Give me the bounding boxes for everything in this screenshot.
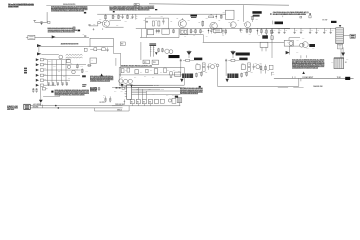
component value labels logic row	[103, 84, 175, 97]
wire right section vert	[271, 36, 273, 58]
svg-text:1N4: 1N4	[140, 70, 143, 73]
resistor R16	[190, 29, 192, 34]
component value labels dual regs	[196, 62, 270, 74]
filter choke box B	[162, 29, 169, 34]
transformer T2 core bar top	[149, 43, 156, 46]
resistor R10	[209, 16, 214, 18]
svg-text:PWR GND BUS: PWR GND BUS	[115, 104, 125, 106]
svg-text:C22: C22	[188, 20, 191, 22]
filter box	[260, 42, 268, 47]
resistor R12	[252, 16, 254, 23]
resistor R25	[40, 64, 43, 66]
tick marks left of IC	[123, 99, 125, 104]
svg-text:TB1: TB1	[135, 4, 138, 6]
sense corner box	[90, 58, 97, 63]
capacitor C5	[146, 20, 148, 23]
svg-text:TO K1: TO K1	[337, 77, 341, 79]
svg-text:C19: C19	[317, 30, 319, 32]
svg-text:A1: A1	[91, 58, 93, 61]
wire reg left vert	[118, 68, 120, 86]
svg-text:REFERENCE DESIGNATIONS ARE ABB: REFERENCE DESIGNATIONS ARE ABBREVIATED S…	[48, 27, 74, 30]
capacitor C26 bypass	[66, 82, 68, 85]
resistor R31	[81, 68, 83, 73]
wire ladder to J3	[343, 35, 350, 37]
transformer T1 primary blob	[252, 11, 261, 14]
capacitor C29 input	[225, 59, 227, 62]
capacitor C35	[32, 88, 34, 90]
note label box TB1	[134, 4, 139, 6]
capacitor C39	[105, 96, 107, 98]
test point box TP4	[152, 60, 158, 64]
snubber box	[225, 10, 234, 19]
bus bar blob	[236, 53, 250, 56]
svg-text:NOTE UNLESS OTHERWISE SPECIFIE: NOTE UNLESS OTHERWISE SPECIFIED ALL RESI…	[292, 59, 324, 62]
component value labels bias band	[184, 31, 267, 38]
transformer T2 secondary winding	[153, 46, 155, 57]
component value labels converter	[143, 12, 258, 24]
capacitor C33 stub	[270, 72, 272, 75]
wire Q1 emitter	[106, 26, 124, 28]
capacitor C19 output filter	[316, 28, 318, 32]
svg-text:R1K: R1K	[130, 18, 133, 20]
connector blob P2	[345, 77, 350, 80]
svg-text:4R7: 4R7	[206, 35, 209, 38]
resistor R33	[121, 69, 124, 73]
arrow flag reg gnd 1	[121, 84, 124, 87]
IC fan line 3	[132, 88, 161, 90]
svg-text:C16: C16	[295, 30, 297, 32]
capacitor C2 on input	[88, 24, 90, 27]
resistor R46	[260, 65, 262, 74]
resistor R26	[40, 69, 43, 71]
feedback box outline	[90, 38, 113, 46]
svg-text:4R7: 4R7	[184, 35, 187, 38]
label blob small	[82, 75, 86, 77]
wire bottom loop	[95, 110, 130, 112]
svg-text:R22: R22	[205, 72, 208, 74]
resistor R21	[249, 28, 251, 33]
resistor R22	[260, 28, 262, 34]
resistor R24	[40, 59, 43, 61]
resistor R1	[48, 21, 50, 23]
capacitor C24 bypass	[57, 82, 59, 85]
svg-text:K1A: K1A	[287, 40, 290, 43]
wire right edge drop	[179, 103, 181, 106]
svg-text:1N4: 1N4	[152, 76, 155, 79]
junction square after note block 3	[78, 30, 81, 32]
capacitor C25 bypass	[61, 82, 63, 85]
svg-text:C22: C22	[223, 12, 226, 14]
wire stub q ground a	[300, 55, 302, 58]
resistor R6	[127, 14, 129, 19]
label blob reg 2	[239, 58, 247, 61]
wire feedback path	[112, 47, 114, 54]
crystal Y1 hatch box	[177, 98, 182, 103]
svg-text:1N4: 1N4	[167, 68, 170, 71]
svg-text:TP2: TP2	[44, 63, 47, 65]
transformer T2 winding zigzag row 1	[66, 54, 83, 55]
optocoupler U2 led circle	[289, 41, 293, 45]
svg-text:W3: W3	[143, 101, 145, 103]
feedback box sub 2	[241, 65, 245, 70]
wire Q5 feed	[243, 5, 245, 22]
transistor Q13	[211, 65, 215, 69]
svg-text:TP2: TP2	[63, 76, 66, 78]
capacitor C15 output filter	[284, 28, 286, 32]
svg-text:R1K: R1K	[93, 23, 96, 25]
capacitor C16 output filter	[294, 28, 296, 32]
wire bottom return long	[218, 85, 299, 87]
terminal strip ladder	[336, 28, 344, 44]
IC fan line 4	[132, 90, 181, 92]
wire mid return rail	[203, 41, 285, 43]
wire left vert 1	[141, 29, 143, 38]
svg-text:W1: W1	[131, 101, 133, 103]
svg-text:C22: C22	[170, 20, 173, 22]
capacitor C3	[122, 14, 124, 16]
test point box TP2	[120, 42, 125, 46]
capacitor C9 on B+ line	[84, 35, 86, 38]
svg-text:TP2: TP2	[76, 69, 79, 71]
junction tick crossing buses	[41, 105, 43, 109]
svg-text:REGULATOR NOTES: REGULATOR NOTES	[63, 3, 75, 6]
resistor R29	[40, 84, 43, 86]
svg-text:RTN: RTN	[232, 50, 234, 52]
transistor Q4	[230, 22, 236, 28]
wire AC line	[274, 77, 354, 79]
note block 7 text	[180, 88, 203, 89]
svg-text:1N4: 1N4	[150, 68, 153, 71]
capacitor C18 output filter	[309, 28, 311, 32]
notes header rule	[46, 4, 154, 6]
connector J2 pin 4 flag	[36, 74, 39, 77]
wire sense line	[39, 46, 90, 48]
svg-text:R22: R22	[214, 63, 217, 65]
svg-text:R22: R22	[249, 63, 252, 65]
connector J1 box	[24, 104, 30, 109]
svg-text:4R7: 4R7	[222, 34, 225, 37]
svg-text:C18: C18	[311, 30, 313, 32]
svg-text:R16: R16	[192, 30, 194, 32]
resistor R11	[220, 15, 222, 19]
note block 4 text	[90, 76, 113, 77]
svg-text:MODEL CP687B: MODEL CP687B	[8, 6, 19, 8]
wire converter left edge drop	[140, 42, 142, 60]
svg-text:TP2: TP2	[44, 58, 47, 60]
svg-text:U7A: U7A	[137, 88, 140, 91]
svg-text:R22: R22	[203, 63, 206, 65]
transistor Q5	[245, 22, 251, 28]
resistor R3	[98, 22, 100, 24]
diode CR4	[222, 29, 224, 35]
resistor R20	[246, 28, 248, 33]
svg-text:R22: R22	[198, 71, 201, 73]
IC fan line 5	[132, 92, 147, 94]
wire grid vert 5	[65, 60, 67, 83]
svg-text:R1K: R1K	[108, 21, 111, 23]
rectifier CR6 blob	[262, 35, 268, 38]
svg-text:4R7: 4R7	[193, 34, 196, 37]
svg-text:C21: C21	[331, 30, 333, 32]
optocoupler U2 box	[284, 40, 293, 46]
tick marks on AC line	[291, 76, 293, 78]
svg-text:C15: C15	[285, 30, 287, 32]
wire AC return drop	[298, 78, 300, 86]
jumper box W6	[160, 99, 164, 103]
transistor Q9	[72, 70, 76, 74]
IC fan line 1	[132, 85, 154, 87]
svg-text:DC RTN: DC RTN	[100, 102, 105, 104]
wire left vert 2	[145, 29, 147, 38]
diode CR7	[270, 28, 272, 36]
wire bottom return	[249, 27, 290, 30]
svg-text:C22: C22	[228, 21, 231, 23]
junction dot on note block 2	[113, 11, 115, 12]
wire riser to note box	[46, 12, 48, 22]
note block 3 text	[48, 30, 77, 31]
svg-text:C22: C22	[143, 20, 146, 22]
resistor R36	[164, 68, 166, 73]
capacitor C31	[253, 64, 255, 66]
svg-text:U7A: U7A	[166, 94, 169, 97]
ladder lower box	[338, 44, 343, 49]
label strip on sense line	[61, 43, 79, 44]
svg-text:W2: W2	[137, 101, 139, 103]
regulator box U3	[135, 70, 139, 74]
junction dot after note block 2	[155, 9, 157, 10]
capacitor C20 output filter	[323, 28, 325, 32]
junction dot bus A	[55, 105, 57, 107]
arrow flag on sense line	[37, 44, 41, 47]
op-amp U6 body	[227, 74, 238, 79]
svg-text:C9: C9	[83, 34, 85, 36]
connector J2 pin 6 flag	[36, 84, 39, 87]
decoupling box	[67, 59, 71, 63]
wire reg feed vert	[115, 58, 117, 66]
schematic title "DC TO DC CONVERTER BOARD"	[8, 4, 34, 6]
antenna pickup T mark	[34, 20, 36, 22]
resistor R34	[127, 68, 130, 72]
arrow flag 2	[37, 52, 41, 55]
label box J3	[350, 34, 355, 38]
svg-text:K1A: K1A	[296, 50, 299, 53]
wire fan vert 2	[141, 89, 143, 99]
svg-text:TP2: TP2	[44, 74, 47, 76]
arrow flag reg gnd 2	[130, 85, 133, 88]
transformer T1 secondary blob	[253, 15, 260, 17]
svg-text:C22: C22	[176, 18, 179, 20]
svg-text:K1A: K1A	[307, 47, 310, 50]
svg-text:TP2: TP2	[62, 64, 65, 66]
capacitor C34 stub	[271, 71, 274, 73]
svg-text:R22: R22	[260, 63, 263, 65]
svg-text:1N4: 1N4	[134, 76, 137, 79]
heat sink bar blob	[169, 55, 180, 58]
capacitor C30	[207, 64, 209, 66]
diode CR1	[215, 15, 217, 19]
svg-text:K1A: K1A	[297, 39, 300, 42]
transistor Q15	[168, 99, 171, 102]
svg-text:C22: C22	[237, 20, 240, 22]
capacitor C21 output filter	[330, 28, 332, 32]
svg-text:C22: C22	[149, 16, 152, 18]
svg-text:K1A: K1A	[302, 37, 305, 40]
faint residue dash 2	[293, 86, 303, 89]
arrow flag ground L	[187, 51, 192, 55]
motor M1 circle	[59, 55, 63, 59]
wire pin 4	[44, 74, 80, 76]
svg-text:C17: C17	[302, 30, 304, 32]
ground triangle main	[39, 100, 43, 103]
transistor Q12	[128, 79, 132, 83]
svg-text:1N4: 1N4	[160, 70, 163, 73]
svg-text:R22: R22	[209, 63, 212, 65]
resistor R35	[146, 69, 148, 73]
junction dot after note block 1	[84, 12, 86, 14]
svg-text:RETURN: RETURN	[33, 106, 38, 108]
wire reg lower rail 2	[112, 87, 184, 89]
svg-text:U7A: U7A	[103, 93, 106, 96]
wire Q1 collector bus	[109, 19, 121, 21]
capacitor C17 output filter	[300, 28, 302, 32]
svg-text:1N4: 1N4	[144, 75, 147, 78]
svg-text:W4: W4	[149, 100, 151, 103]
junction dot right of callout	[309, 13, 311, 14]
wire stub below callout	[282, 16, 284, 18]
arrow flag opto ground	[286, 51, 290, 55]
op-amp U5 body	[182, 74, 193, 79]
resistor R53	[161, 48, 163, 52]
wire flag R stem	[232, 55, 234, 58]
arrow flag far right	[341, 53, 345, 57]
wire pin 2	[44, 64, 86, 66]
note block 5 text	[292, 60, 324, 61]
arrow flag on B+ line	[52, 35, 56, 38]
svg-text:C22: C22	[251, 16, 254, 18]
svg-text:R22: R22	[255, 63, 258, 65]
wire opto top	[288, 38, 290, 41]
arrow flag sub 2 gnd	[226, 79, 229, 83]
svg-text:R22: R22	[242, 62, 245, 64]
wire converter band right edge	[178, 29, 180, 38]
component value labels top mid	[93, 18, 133, 28]
output box	[175, 72, 181, 76]
resistor R48	[42, 88, 45, 90]
svg-text:TP2: TP2	[86, 71, 89, 73]
note block 6b dark tail	[90, 87, 97, 88]
transformer T2 core bar bottom	[149, 44, 156, 47]
warning bullet 2	[302, 71, 305, 74]
resistor R15	[102, 48, 106, 51]
wire input stub	[35, 21, 47, 23]
capacitor C11	[210, 28, 212, 30]
label blob reg 1	[194, 58, 202, 61]
resistor R28	[40, 79, 43, 81]
svg-text:TP2: TP2	[44, 68, 47, 70]
wire junction drop	[217, 67, 219, 87]
connector J2 pin 1 flag	[36, 58, 39, 61]
resistor R52	[158, 48, 160, 52]
node battery + marks	[135, 14, 137, 19]
choke L2 blob	[275, 22, 284, 25]
wire bus main lower	[112, 105, 180, 107]
svg-text:GND: GND	[188, 50, 191, 52]
wire fan vert 3	[145, 91, 147, 99]
resistor R9	[202, 21, 204, 28]
transistor Q7	[300, 43, 304, 47]
svg-text:C22: C22	[244, 22, 247, 24]
diode CR5	[256, 28, 258, 34]
wire fan vert 1	[137, 87, 139, 99]
transistor Q2	[178, 20, 186, 28]
left reference text	[7, 106, 18, 107]
svg-text:+: +	[136, 18, 137, 20]
svg-text:R4: R4	[114, 15, 116, 18]
capacitor C23 bypass	[52, 82, 54, 85]
notes end label box	[73, 27, 75, 29]
warning bullet 3	[199, 86, 201, 88]
svg-text:C22: C22	[206, 18, 209, 20]
resistor R42	[195, 73, 197, 78]
transistor Q14	[256, 65, 260, 69]
capacitor C13 output filter	[272, 28, 274, 32]
resistor R18	[200, 29, 202, 34]
svg-text:R22: R22	[267, 70, 270, 72]
inductor L1 winding blob	[190, 15, 197, 17]
wire flag L stem	[188, 55, 190, 58]
wire grid vert 1	[46, 60, 48, 83]
svg-text:TP2: TP2	[44, 78, 47, 80]
svg-text:4R7: 4R7	[258, 34, 261, 37]
capacitor C14 output filter	[278, 28, 280, 32]
resistor R4	[112, 14, 114, 19]
warning triangle bullet	[100, 74, 103, 77]
resistor R50 column	[98, 87, 100, 91]
svg-text:1N4: 1N4	[178, 69, 181, 72]
wire output rail	[270, 27, 336, 29]
wire stub below note B right	[102, 28, 104, 30]
wire bus A	[30, 105, 122, 107]
svg-text:C22: C22	[218, 20, 221, 22]
note block 1 text	[51, 6, 87, 7]
junction node circle	[216, 64, 219, 67]
wire corner path	[43, 96, 59, 98]
resistor R17	[195, 29, 197, 34]
component value labels right side	[287, 37, 349, 63]
wire pin 5	[44, 79, 70, 81]
wire reg bottom rail	[119, 84, 184, 86]
resistor R7	[152, 21, 154, 26]
wire AC stub 2	[300, 78, 302, 81]
wire rail B	[140, 37, 179, 39]
wire +V rail	[97, 13, 226, 15]
note callout text right	[273, 12, 309, 13]
svg-text:CHASSIS GND: CHASSIS GND	[313, 85, 323, 88]
svg-text:115 VAC INPUT: 115 VAC INPUT	[302, 76, 313, 79]
resistor R8	[158, 21, 160, 26]
jumper box W1	[130, 99, 134, 103]
svg-text:U7A: U7A	[133, 84, 136, 87]
svg-text:R22: R22	[251, 72, 254, 74]
svg-text:U7A: U7A	[149, 88, 152, 91]
faint residue dash 1	[278, 86, 288, 89]
transistor Q16	[165, 49, 169, 53]
svg-text:K1A: K1A	[331, 60, 334, 63]
wire sub 2 left vert	[225, 62, 227, 76]
wire rail C drop	[202, 35, 204, 43]
bias box	[180, 29, 188, 35]
connector P1 box	[28, 35, 35, 39]
